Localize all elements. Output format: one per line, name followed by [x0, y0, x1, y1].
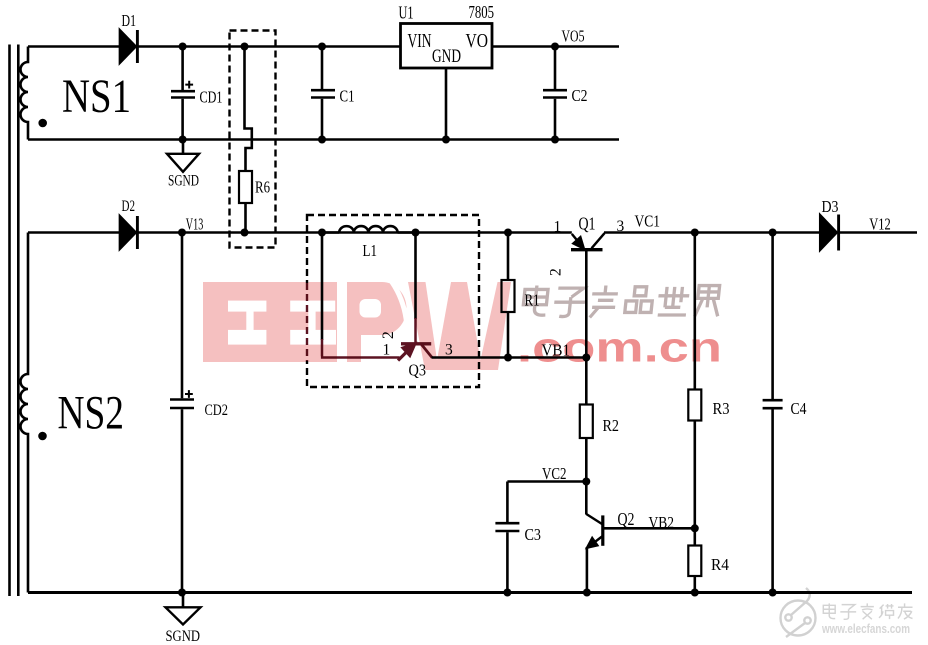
counter E1 lower [228, 330, 266, 345]
svg-text:.com.cn: .com.cn [517, 324, 722, 371]
regulator U1 box [401, 24, 493, 69]
capacitor C3 [495, 482, 519, 593]
svg-text:VC2: VC2 [542, 464, 567, 483]
watermark elecfans [781, 588, 913, 637]
resistor R6 lower wire [244, 203, 247, 233]
svg-text:V12: V12 [869, 215, 891, 234]
svg-text:3: 3 [617, 218, 625, 235]
svg-text:1: 1 [554, 219, 562, 236]
capacitor C1 [311, 47, 335, 140]
node rail C at R6 [241, 229, 249, 237]
counter E2 bridge [308, 311, 315, 331]
svg-text:C1: C1 [340, 87, 355, 106]
NS2 phase dot [38, 432, 47, 441]
node VO5 [551, 43, 559, 51]
node VC1 at R3 [691, 229, 699, 237]
svg-text:D3: D3 [822, 197, 839, 216]
wire rail A middle segment [139, 45, 401, 48]
resistor R2 wire bottom [585, 438, 588, 482]
resistor R4 wire top [693, 528, 696, 545]
node rail B at C1 [318, 136, 326, 144]
svg-text:NS1: NS1 [62, 70, 131, 123]
node rail C at R1 [504, 229, 512, 237]
svg-text:R4: R4 [711, 555, 729, 574]
wire L1 left branch down [321, 233, 324, 341]
node VC2 [582, 478, 590, 486]
svg-text:VB2: VB2 [649, 513, 675, 532]
wire rail A left segment [28, 45, 119, 48]
node VB2 [691, 524, 699, 532]
wire VC2 [507, 480, 586, 483]
wire rail C from Q1 collector to D3 [604, 231, 820, 234]
counter W wedge 2 [467, 282, 498, 360]
node rail F at R4 [691, 589, 699, 597]
svg-text:1: 1 [383, 342, 391, 359]
svg-text:GND: GND [432, 47, 461, 67]
wire Q3 pin2 maroon lower [414, 318, 417, 343]
svg-text:C2: C2 [572, 86, 588, 105]
wire rail A right segment (VO output) [492, 45, 619, 48]
counter E2 lower [290, 330, 336, 345]
counter E1 bridge [246, 311, 253, 331]
node rail A at C1 [318, 43, 326, 51]
thyristor Q3 [398, 343, 432, 360]
svg-text:R6: R6 [255, 178, 270, 197]
resistor R6 wire with jog [245, 47, 252, 172]
transformer winding NS1 [21, 47, 28, 140]
svg-text:C3: C3 [525, 525, 542, 544]
svg-text:7805: 7805 [469, 2, 495, 22]
watermark letter P stem [347, 282, 361, 362]
svg-text:R2: R2 [603, 416, 620, 435]
diode D2 [119, 215, 137, 250]
NS1 phase dot [38, 119, 47, 128]
white ring around P [389, 278, 407, 354]
node rail B at CD1 [179, 136, 187, 144]
svg-text:D1: D1 [122, 11, 137, 30]
U1 GND pin wire [445, 68, 448, 140]
resistor R4 wire bottom [693, 576, 696, 593]
counter P bowl hole [360, 299, 382, 318]
node rail A at R6 [241, 43, 249, 51]
svg-text:VO5: VO5 [562, 27, 585, 46]
node rail F at C3 [503, 589, 511, 597]
node V13 [178, 229, 186, 237]
node rail C at Q3 pin2 [412, 229, 420, 237]
node rail F at Q2 [583, 589, 591, 597]
node rail B at U1 GND [442, 136, 450, 144]
watermark letter W [408, 282, 511, 370]
wire maroon corner to Q3 anode [321, 339, 400, 358]
svg-text:VIN: VIN [408, 31, 432, 52]
resistor R6 [239, 171, 252, 203]
resistor R3 wire top [693, 233, 696, 390]
dashed box around L1 and Q3 [307, 215, 479, 387]
capacitor C2 [543, 47, 567, 140]
svg-text:www.elecfans.com: www.elecfans.com [821, 621, 910, 636]
svg-text:D2: D2 [122, 198, 136, 215]
resistor R3 [688, 390, 701, 421]
capacitor C4 [763, 233, 783, 593]
watermark EEPW block [203, 278, 722, 371]
svg-text:CD1: CD1 [200, 88, 223, 107]
wire rail C left segment [28, 231, 119, 234]
svg-text:2: 2 [548, 268, 565, 276]
svg-text:R3: R3 [713, 399, 730, 418]
node rail C at L1 box left [318, 229, 326, 237]
wire VB1 from Q3 gate to R2 [432, 356, 587, 359]
resistor R3 wire bottom [693, 421, 696, 529]
node rail A at CD1 [179, 43, 187, 51]
svg-text:C4: C4 [791, 399, 807, 418]
svg-text:CD2: CD2 [205, 402, 229, 419]
elecfans chinese text [823, 603, 912, 619]
svg-text:U1: U1 [399, 3, 414, 23]
wire VB2 base [603, 527, 695, 530]
inductor L1 [322, 226, 416, 232]
svg-text:L1: L1 [363, 241, 378, 260]
transformer winding NS2 [21, 233, 28, 593]
transistor Q1 [571, 233, 605, 357]
watermark letters E E [203, 282, 337, 362]
wire rail F bottom [28, 591, 912, 594]
wire rail C right of D3 [840, 231, 917, 234]
resistor R4 [688, 546, 701, 577]
resistor R2 wire top [585, 358, 588, 405]
wire rail B (NS1 bottom) [28, 138, 619, 140]
capacitor CD2 [170, 233, 194, 593]
watermark letter P bowl [360, 282, 406, 335]
wire rail C segment D2 to Q1 [139, 231, 572, 234]
svg-text:V13: V13 [186, 215, 204, 234]
node rail F at CD2 [178, 589, 186, 597]
node VB1 at R1 [504, 354, 512, 362]
elecfans logo circle [781, 588, 816, 637]
resistor R1 wire bottom [507, 312, 510, 358]
svg-text:Q2: Q2 [618, 509, 635, 529]
ground SGND lower [166, 593, 201, 625]
counter W wedge 1 [426, 282, 452, 360]
svg-text:SGND: SGND [168, 173, 199, 190]
svg-text:Q3: Q3 [409, 361, 427, 380]
svg-text:VC1: VC1 [635, 212, 661, 231]
diode D3 [820, 214, 839, 251]
counter E1 upper [228, 301, 266, 312]
resistor R2 [580, 405, 593, 439]
transformer core [10, 45, 19, 597]
counter E2 upper [290, 301, 335, 312]
capacitor CD1 [171, 47, 195, 140]
watermark chinese EEPW slogan [522, 286, 721, 318]
transistor Q2 [586, 482, 603, 593]
node rail B at C2 [551, 136, 559, 144]
dashed box left edge maroon under watermark [305, 283, 308, 361]
svg-text:Q1: Q1 [579, 214, 596, 234]
wire Q3 pin2 vertical [414, 233, 417, 320]
svg-text:SGND: SGND [166, 628, 201, 645]
resistor R1 [502, 280, 515, 312]
dashed box around R6 [230, 31, 276, 248]
diode D1 [119, 29, 137, 64]
node rail F at C4 [769, 589, 777, 597]
ground SGND upper [167, 140, 199, 172]
node VB1 at R2 [582, 354, 590, 362]
svg-text:VO: VO [466, 31, 489, 52]
node VC1 at C4 [769, 229, 777, 237]
svg-text:NS2: NS2 [58, 387, 125, 440]
resistor R1 wire top [507, 233, 510, 281]
